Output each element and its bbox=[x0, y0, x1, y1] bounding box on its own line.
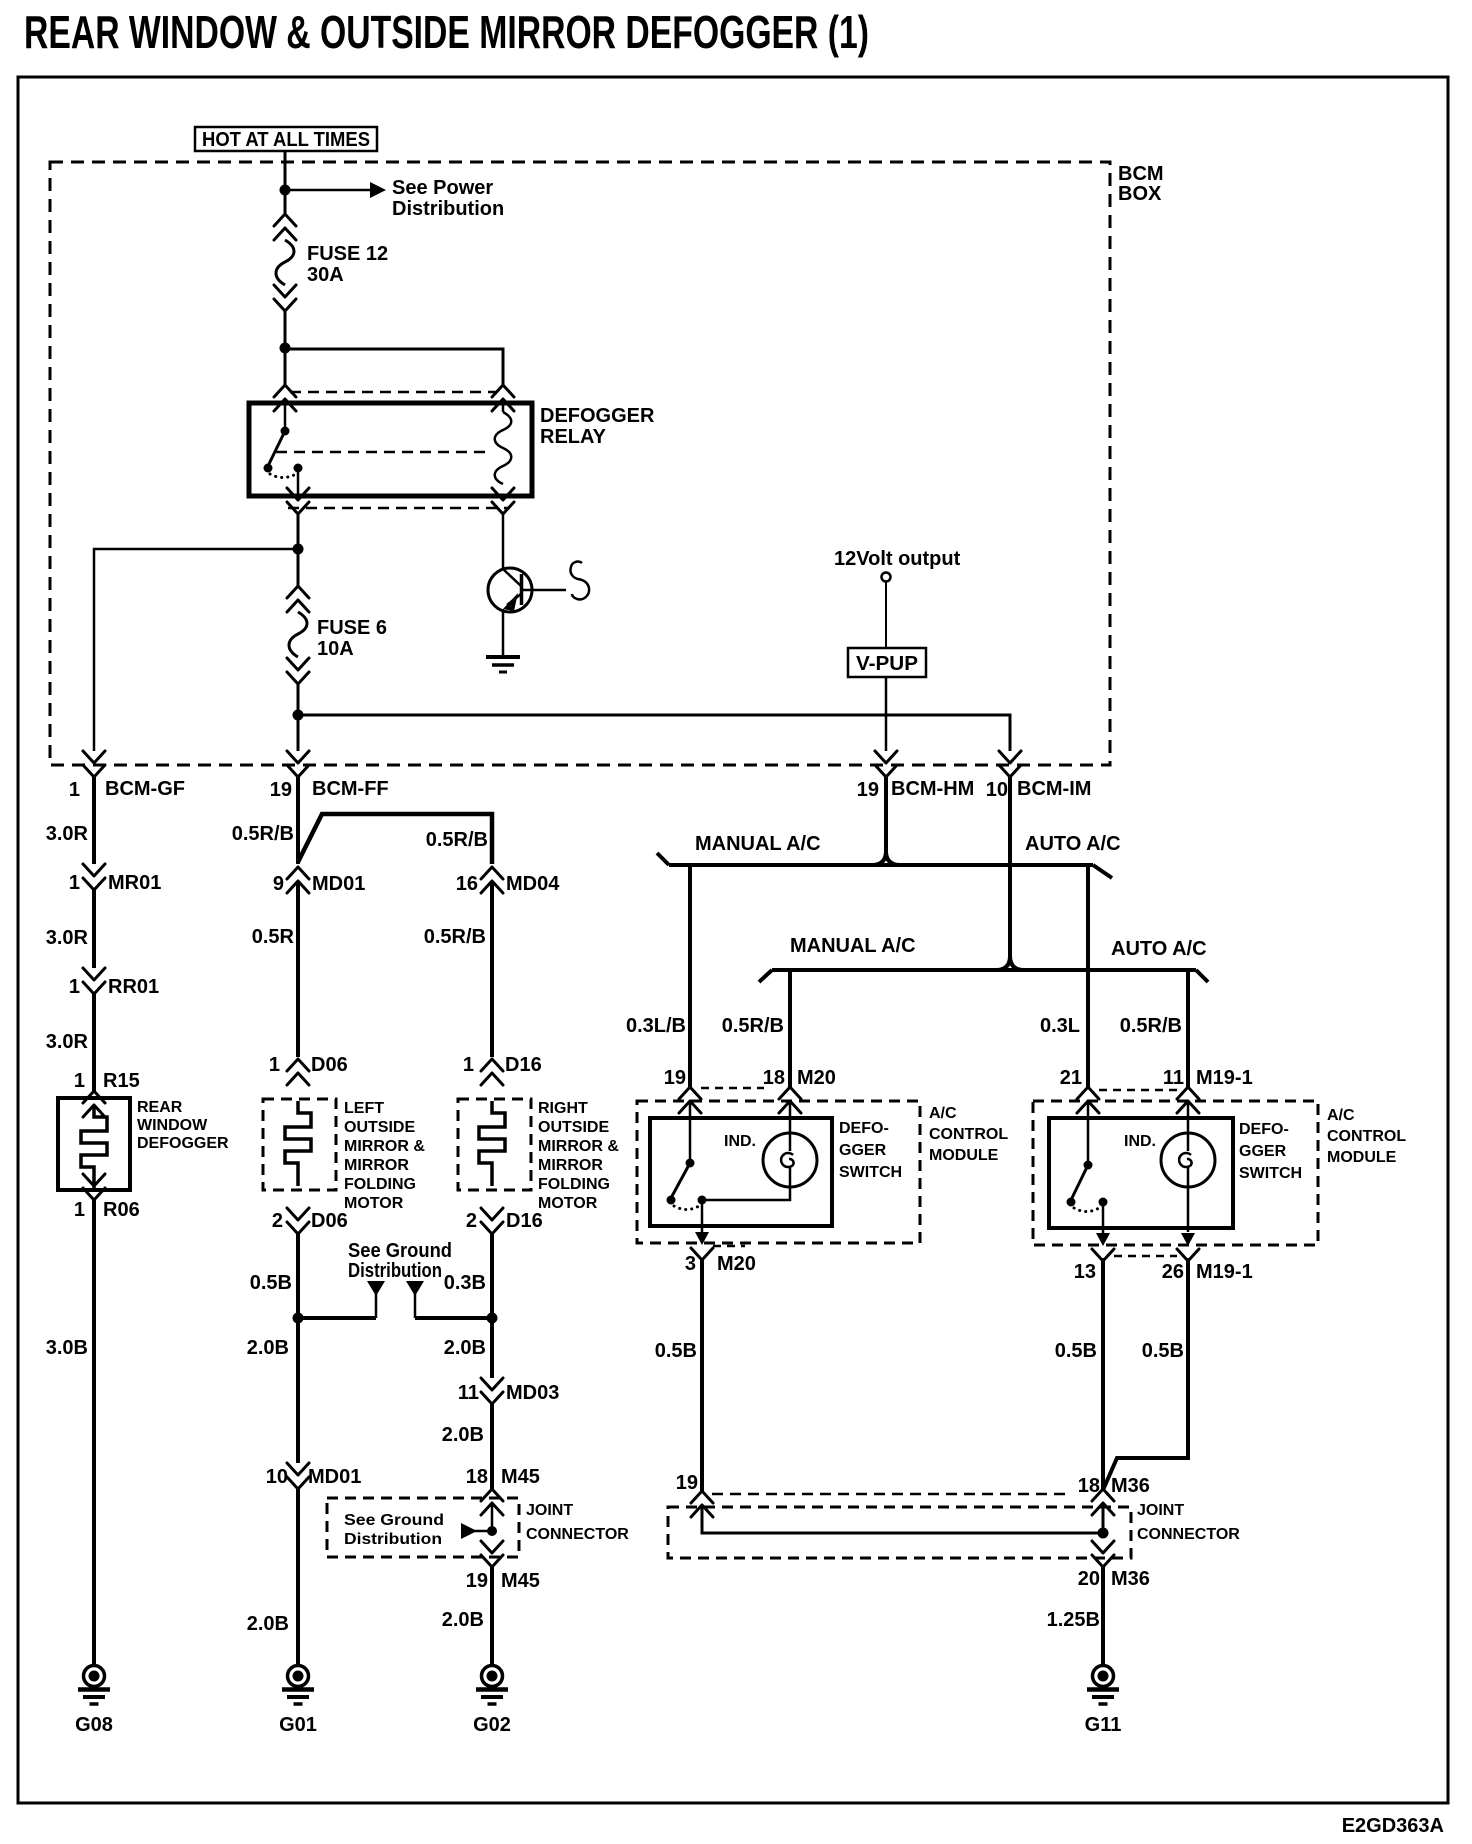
squiggle continuation symbol at base bbox=[570, 562, 589, 600]
switch pole wire right bbox=[1087, 1101, 1090, 1165]
wire relay out to distribution node bbox=[297, 514, 300, 549]
connector BCM-IM pin 10 bbox=[999, 751, 1021, 777]
svg-text:10A: 10A bbox=[317, 638, 354, 660]
svg-text:0.5R/B: 0.5R/B bbox=[426, 829, 488, 851]
switch output dot right bbox=[1099, 1198, 1108, 1207]
svg-text:REAR WINDOW & OUTSIDE MIRROR D: REAR WINDOW & OUTSIDE MIRROR DEFOGGER (1… bbox=[24, 6, 869, 58]
svg-text:MIRROR: MIRROR bbox=[538, 1157, 603, 1174]
svg-text:BOX: BOX bbox=[1118, 183, 1162, 205]
svg-text:3: 3 bbox=[685, 1253, 696, 1275]
svg-text:DEFO-: DEFO- bbox=[1239, 1121, 1289, 1138]
switch contact dot right module bbox=[1067, 1198, 1076, 1207]
connector RR01 pin 1 bbox=[83, 968, 105, 994]
wire fuse 12 to relay feed node bbox=[284, 311, 287, 385]
left mirror motor dashed body bbox=[263, 1099, 336, 1190]
wire from HOT box down bbox=[284, 151, 287, 190]
svg-text:Distribution: Distribution bbox=[348, 1260, 442, 1282]
svg-text:11: 11 bbox=[458, 1382, 479, 1404]
connector M20 pin 3 bbox=[695, 1232, 709, 1245]
ground distribution arrow left bbox=[367, 1281, 385, 1296]
svg-text:D06: D06 bbox=[311, 1054, 348, 1076]
svg-text:1: 1 bbox=[74, 1199, 85, 1221]
connector line M19-1 dashed bottom bbox=[1114, 1255, 1177, 1258]
svg-text:MOTOR: MOTOR bbox=[344, 1195, 404, 1212]
wire 3.0R RR01 to R15 bbox=[92, 994, 96, 1091]
wire 0.5R/B drop to pin 11 bbox=[1186, 970, 1190, 1088]
svg-text:CONNECTOR: CONNECTOR bbox=[1137, 1526, 1240, 1543]
node BCM-FF branch junction bbox=[293, 710, 304, 721]
svg-text:MODULE: MODULE bbox=[1327, 1149, 1397, 1166]
harness bracket manual/auto 2 bbox=[772, 968, 1196, 972]
svg-text:GGER: GGER bbox=[1239, 1143, 1287, 1160]
svg-text:DEFOGGER: DEFOGGER bbox=[137, 1135, 229, 1152]
connector BCM-HM pin 19 bbox=[875, 751, 897, 777]
switch dotted travel arc right bbox=[1074, 1208, 1099, 1212]
svg-text:21: 21 bbox=[1060, 1067, 1082, 1089]
wire 0.5R/B MD04 to D16 bbox=[490, 881, 494, 1057]
joint connector dashed box left bbox=[327, 1498, 519, 1557]
svg-text:RIGHT: RIGHT bbox=[538, 1100, 588, 1117]
svg-text:AUTO A/C: AUTO A/C bbox=[1025, 833, 1121, 855]
svg-text:2: 2 bbox=[466, 1210, 477, 1232]
svg-text:BCM-IM: BCM-IM bbox=[1017, 778, 1091, 800]
svg-text:0.5R/B: 0.5R/B bbox=[1120, 1015, 1182, 1037]
svg-text:1: 1 bbox=[69, 872, 80, 894]
svg-text:0.5R/B: 0.5R/B bbox=[722, 1015, 784, 1037]
relay K1 dashed line top bbox=[290, 391, 497, 394]
svg-text:3.0R: 3.0R bbox=[46, 1031, 89, 1053]
svg-text:16: 16 bbox=[456, 873, 478, 895]
ground at transistor emitter bbox=[486, 655, 520, 659]
lamp lead bottom bbox=[789, 1166, 792, 1187]
svg-text:10: 10 bbox=[986, 779, 1008, 801]
svg-text:RELAY: RELAY bbox=[540, 426, 607, 448]
svg-text:30A: 30A bbox=[307, 264, 344, 286]
wire 0.3B D16 to junction bbox=[490, 1234, 494, 1318]
svg-text:2: 2 bbox=[272, 1210, 283, 1232]
wire feed to relay coil side bbox=[285, 349, 503, 385]
svg-text:1: 1 bbox=[69, 779, 80, 801]
joint connector dashed box right bbox=[668, 1507, 1131, 1558]
relay pin connector top-left bbox=[274, 385, 296, 411]
svg-text:0.5R/B: 0.5R/B bbox=[424, 926, 486, 948]
wire 3.0R BCM-GF to MR01 bbox=[92, 777, 96, 864]
ground G02 bbox=[476, 1666, 508, 1705]
wire relay coil to transistor collector bbox=[502, 514, 505, 569]
harness bracket manual/auto 1 bbox=[669, 863, 1093, 867]
connector R06 pin 1 bbox=[83, 1174, 105, 1200]
svg-text:18: 18 bbox=[466, 1466, 488, 1488]
connector D16 pin 2 bbox=[481, 1208, 503, 1234]
right mirror heating element bbox=[479, 1101, 505, 1186]
svg-text:M36: M36 bbox=[1111, 1568, 1150, 1590]
wire ground distribution tie right bbox=[415, 1316, 492, 1320]
wire V-PUP to BCM-HM bbox=[885, 677, 888, 751]
transistor Q1 body circle bbox=[488, 568, 532, 612]
wire 3.0R MR01 to RR01 bbox=[92, 890, 96, 968]
relay switch contact dot left bbox=[264, 464, 273, 473]
svg-text:DEFO-: DEFO- bbox=[839, 1120, 889, 1137]
switch arm left bbox=[671, 1163, 690, 1198]
fuse F6 connector top bbox=[287, 586, 309, 612]
right mirror motor dashed body bbox=[458, 1099, 531, 1190]
svg-text:19: 19 bbox=[270, 779, 292, 801]
relay K1 dashed line middle bbox=[276, 451, 489, 454]
svg-text:OUTSIDE: OUTSIDE bbox=[538, 1119, 609, 1136]
relay pin connector top-right bbox=[492, 385, 514, 411]
IND lamp circle left bbox=[763, 1133, 817, 1187]
wire junction to fuse 12 bbox=[284, 190, 287, 214]
relay K1 dashed line bottom bbox=[288, 507, 508, 510]
svg-text:18: 18 bbox=[763, 1067, 785, 1089]
svg-text:OUTSIDE: OUTSIDE bbox=[344, 1119, 415, 1136]
svg-text:CONNECTOR: CONNECTOR bbox=[526, 1526, 629, 1543]
svg-text:AUTO A/C: AUTO A/C bbox=[1111, 938, 1207, 960]
wire junction right to BCM-IM bbox=[298, 715, 1010, 751]
defogger switch body right bbox=[1049, 1118, 1233, 1228]
svg-text:BCM: BCM bbox=[1118, 163, 1164, 185]
fuse F6 connector bottom bbox=[287, 658, 309, 684]
wire 0.5R/B drop to pin 18 bbox=[788, 970, 792, 1088]
svg-text:MD04: MD04 bbox=[506, 873, 560, 895]
connector BCM-GF pin 1 bbox=[83, 751, 105, 777]
svg-text:2.0B: 2.0B bbox=[444, 1337, 486, 1359]
HOT AT ALL TIMES box bbox=[195, 127, 377, 151]
connector MD04 pin 16 bbox=[481, 867, 503, 893]
svg-text:See Ground: See Ground bbox=[344, 1512, 444, 1529]
svg-text:FUSE 6: FUSE 6 bbox=[317, 617, 387, 639]
svg-text:D16: D16 bbox=[505, 1054, 542, 1076]
switch pivot dot bbox=[686, 1159, 695, 1168]
svg-text:MD01: MD01 bbox=[308, 1466, 361, 1488]
svg-text:A/C: A/C bbox=[929, 1105, 957, 1122]
wire switch output down right bbox=[1102, 1202, 1105, 1233]
lamp lead top bbox=[789, 1101, 792, 1151]
wire junction left toward BCM-GF bbox=[94, 549, 298, 751]
terminal circle 12Volt output bbox=[882, 573, 891, 582]
svg-text:D16: D16 bbox=[506, 1210, 543, 1232]
svg-text:2.0B: 2.0B bbox=[247, 1337, 289, 1359]
svg-text:13: 13 bbox=[1074, 1261, 1096, 1283]
connector MR01 pin 1 bbox=[83, 864, 105, 890]
svg-text:R15: R15 bbox=[103, 1070, 140, 1092]
svg-text:2.0B: 2.0B bbox=[442, 1424, 484, 1446]
switch pole wire left bbox=[689, 1101, 692, 1163]
BCM BOX dashed boundary bbox=[50, 162, 1110, 765]
svg-text:FUSE 12: FUSE 12 bbox=[307, 243, 388, 265]
wire switch output down bbox=[701, 1200, 704, 1232]
wire 2.0B M45 to G02 bbox=[490, 1567, 494, 1664]
connector M19-1 pin 13 bbox=[1096, 1233, 1110, 1246]
connector line M19-1 dashed bbox=[1099, 1089, 1177, 1092]
node relay output junction bbox=[293, 544, 304, 555]
svg-text:JOINT: JOINT bbox=[526, 1502, 573, 1519]
svg-text:BCM-HM: BCM-HM bbox=[891, 778, 974, 800]
svg-text:M45: M45 bbox=[501, 1570, 540, 1592]
wire 0.3L drop to pin 21 bbox=[1086, 865, 1090, 1088]
node junction below HOT box bbox=[280, 185, 291, 196]
defogger switch body left bbox=[650, 1118, 832, 1226]
wire 0.5R MD01 to D06 bbox=[296, 881, 300, 1057]
switch arm right bbox=[1071, 1165, 1088, 1200]
wire to See Power Distribution arrow bbox=[285, 189, 370, 192]
lamp filament curl right bbox=[1179, 1153, 1191, 1167]
svg-text:19: 19 bbox=[466, 1570, 488, 1592]
connector D06 pin 2 bbox=[287, 1208, 309, 1234]
rear window defogger heating element bbox=[81, 1105, 107, 1190]
svg-text:See Ground: See Ground bbox=[348, 1240, 452, 1262]
switch output dot bbox=[698, 1196, 707, 1205]
wire 3.0B R06 to G08 bbox=[92, 1200, 96, 1664]
svg-text:E2GD363A: E2GD363A bbox=[1342, 1815, 1444, 1837]
joint connector internal wire bbox=[491, 1503, 494, 1531]
svg-text:WINDOW: WINDOW bbox=[137, 1117, 208, 1134]
svg-text:MANUAL A/C: MANUAL A/C bbox=[790, 935, 916, 957]
wire 0.5B D06 to junction bbox=[296, 1234, 300, 1318]
svg-text:FOLDING: FOLDING bbox=[538, 1176, 610, 1193]
wire switch contact to relay bottom pin bbox=[297, 468, 300, 498]
svg-text:MOTOR: MOTOR bbox=[538, 1195, 598, 1212]
wire branch diagonal to MD04 feed bbox=[298, 814, 492, 864]
left mirror heating element bbox=[285, 1101, 311, 1186]
ground G08 bbox=[78, 1666, 110, 1705]
svg-text:See Power: See Power bbox=[392, 177, 493, 199]
wire fuse 6 to BCM-FF node bbox=[297, 684, 300, 751]
wire 0.3L/B drop to pin 19 bbox=[688, 865, 692, 1088]
svg-text:10: 10 bbox=[266, 1466, 288, 1488]
svg-text:3.0R: 3.0R bbox=[46, 927, 89, 949]
IND lamp circle right bbox=[1161, 1133, 1215, 1187]
node joint connector right junction bbox=[1098, 1528, 1109, 1539]
wire 0.5B pin3 M20 down to joint connector bbox=[700, 1258, 704, 1491]
svg-text:12Volt output: 12Volt output bbox=[834, 548, 961, 570]
connector M36 pin 20 bbox=[1092, 1541, 1114, 1567]
svg-text:LEFT: LEFT bbox=[344, 1100, 384, 1117]
rear window defogger body bbox=[58, 1098, 130, 1190]
svg-text:FOLDING: FOLDING bbox=[344, 1176, 416, 1193]
svg-text:M19-1: M19-1 bbox=[1196, 1261, 1253, 1283]
svg-text:G01: G01 bbox=[279, 1714, 317, 1736]
svg-text:3.0B: 3.0B bbox=[46, 1337, 88, 1359]
wire BCM-HM down to manual/auto split bbox=[872, 777, 900, 865]
svg-text:1: 1 bbox=[463, 1054, 474, 1076]
wire 2.0B MD03 to M45 bbox=[490, 1404, 494, 1489]
svg-text:0.5B: 0.5B bbox=[250, 1272, 292, 1294]
wire ground distribution tie left bbox=[298, 1316, 376, 1320]
svg-text:IND.: IND. bbox=[1124, 1133, 1156, 1150]
svg-text:26: 26 bbox=[1162, 1261, 1184, 1283]
svg-text:REAR: REAR bbox=[137, 1099, 183, 1116]
svg-text:MODULE: MODULE bbox=[929, 1147, 999, 1164]
svg-text:0.3L: 0.3L bbox=[1040, 1015, 1080, 1037]
transistor Q1 collector stroke bbox=[504, 570, 521, 586]
wire transistor emitter to ground bbox=[502, 609, 505, 655]
svg-text:D06: D06 bbox=[311, 1210, 348, 1232]
svg-text:RR01: RR01 bbox=[108, 976, 159, 998]
svg-text:0.5B: 0.5B bbox=[1142, 1340, 1184, 1362]
svg-text:0.3B: 0.3B bbox=[444, 1272, 486, 1294]
connector MD01 pin 9 bbox=[287, 867, 309, 893]
svg-text:R06: R06 bbox=[103, 1199, 140, 1221]
svg-text:2.0B: 2.0B bbox=[442, 1609, 484, 1631]
svg-text:Distribution: Distribution bbox=[344, 1531, 442, 1548]
svg-text:G11: G11 bbox=[1085, 1714, 1122, 1736]
transistor Q1 emitter stroke with arrow bbox=[507, 594, 521, 605]
wire 0.5B pin26 down with elbow to M36 bbox=[1103, 1258, 1188, 1490]
svg-text:HOT AT ALL TIMES: HOT AT ALL TIMES bbox=[202, 129, 370, 151]
ground G11 bbox=[1087, 1666, 1119, 1705]
svg-text:GGER: GGER bbox=[839, 1142, 887, 1159]
svg-text:MIRROR: MIRROR bbox=[344, 1157, 409, 1174]
svg-text:A/C: A/C bbox=[1327, 1107, 1355, 1124]
svg-text:20: 20 bbox=[1078, 1568, 1100, 1590]
connector BCM-FF pin 19 bbox=[287, 751, 309, 777]
relay coil winding bbox=[495, 412, 512, 484]
lamp lead bottom right bbox=[1187, 1166, 1190, 1232]
relay switch dotted travel arc bbox=[270, 474, 296, 478]
ground G01 bbox=[282, 1666, 314, 1705]
svg-text:9: 9 bbox=[273, 873, 284, 895]
svg-text:1: 1 bbox=[74, 1070, 85, 1092]
wire 0.5R/B BCM-FF to MD01 bbox=[296, 777, 300, 864]
connector M19-1 pin 26 bbox=[1181, 1233, 1195, 1246]
wire BCM-IM down to manual/auto split 2 bbox=[996, 777, 1024, 970]
svg-text:MR01: MR01 bbox=[108, 872, 161, 894]
relay switch contact dot right bbox=[294, 464, 303, 473]
wire 0.5B pin13 down to M36 bbox=[1101, 1258, 1105, 1489]
relay switch pivot dot bbox=[281, 427, 290, 436]
wire 2.0B to MD03 bbox=[490, 1318, 494, 1378]
A/C control module dashed box right bbox=[1033, 1101, 1318, 1245]
relay coil stub top bbox=[502, 399, 505, 412]
wire switch output to lamp bbox=[702, 1187, 790, 1200]
node joint connector junction bbox=[487, 1526, 497, 1536]
fuse F12 connector top bbox=[274, 214, 296, 240]
svg-text:19: 19 bbox=[664, 1067, 686, 1089]
svg-text:M20: M20 bbox=[717, 1253, 756, 1275]
joint connector arrow from ground distribution bbox=[468, 1530, 488, 1533]
svg-text:SWITCH: SWITCH bbox=[1239, 1165, 1302, 1182]
switch dotted travel arc bbox=[674, 1206, 699, 1210]
transistor Q1 base lead bbox=[523, 589, 566, 592]
svg-text:Distribution: Distribution bbox=[392, 198, 504, 220]
wire 2.0B to MD01 pin10 bbox=[296, 1318, 300, 1463]
relay switch arm bbox=[268, 431, 285, 466]
svg-text:V-PUP: V-PUP bbox=[856, 653, 918, 675]
svg-text:SWITCH: SWITCH bbox=[839, 1164, 902, 1181]
svg-text:19: 19 bbox=[857, 779, 879, 801]
svg-text:3.0R: 3.0R bbox=[46, 823, 89, 845]
relay pin connector bottom-right bbox=[492, 488, 514, 514]
svg-text:2.0B: 2.0B bbox=[247, 1613, 289, 1635]
lamp filament curl bbox=[781, 1153, 793, 1167]
relay switch common stub bbox=[284, 399, 287, 431]
svg-text:G02: G02 bbox=[473, 1714, 511, 1736]
wire 1.25B M36 to G11 bbox=[1101, 1567, 1105, 1664]
connector line M20 dashed bbox=[701, 1087, 764, 1090]
svg-text:BCM-GF: BCM-GF bbox=[105, 778, 185, 800]
svg-text:19: 19 bbox=[676, 1472, 698, 1494]
svg-text:0.5R/B: 0.5R/B bbox=[232, 823, 294, 845]
fuse F12 connector bottom bbox=[274, 285, 296, 311]
svg-text:1.25B: 1.25B bbox=[1047, 1609, 1100, 1631]
wire 2.0B MD01 to G01 bbox=[296, 1489, 300, 1664]
svg-text:MIRROR &: MIRROR & bbox=[538, 1138, 619, 1155]
svg-text:MD01: MD01 bbox=[312, 873, 365, 895]
svg-text:CONTROL: CONTROL bbox=[929, 1126, 1008, 1143]
connector M36 dashed line bbox=[712, 1493, 1068, 1496]
A/C control module dashed box left bbox=[637, 1101, 920, 1243]
svg-text:0.3L/B: 0.3L/B bbox=[626, 1015, 686, 1037]
connector MD01 pin 10 bbox=[287, 1463, 309, 1489]
switch pivot dot right bbox=[1084, 1161, 1093, 1170]
svg-text:1: 1 bbox=[269, 1054, 280, 1076]
svg-text:MIRROR &: MIRROR & bbox=[344, 1138, 425, 1155]
ground distribution arrow right bbox=[406, 1281, 424, 1296]
svg-text:JOINT: JOINT bbox=[1137, 1502, 1184, 1519]
transistor Q1 base bar bbox=[520, 574, 524, 605]
svg-text:IND.: IND. bbox=[724, 1133, 756, 1150]
svg-text:M45: M45 bbox=[501, 1466, 540, 1488]
svg-text:11: 11 bbox=[1163, 1067, 1184, 1089]
svg-text:G08: G08 bbox=[75, 1714, 113, 1736]
svg-text:CONTROL: CONTROL bbox=[1327, 1128, 1406, 1145]
svg-text:DEFOGGER: DEFOGGER bbox=[540, 405, 655, 427]
joint connector internal bus wire bbox=[702, 1503, 1103, 1533]
V-PUP box bbox=[848, 648, 926, 677]
node D06 ground junction bbox=[293, 1313, 304, 1324]
svg-text:M19-1: M19-1 bbox=[1196, 1067, 1253, 1089]
fuse F6 element bbox=[289, 612, 307, 657]
svg-text:0.5B: 0.5B bbox=[1055, 1340, 1097, 1362]
node D16 ground junction bbox=[487, 1313, 498, 1324]
switch contact dot left bbox=[667, 1196, 676, 1205]
wire 12V to V-PUP bbox=[885, 581, 887, 648]
wire junction down to fuse 6 bbox=[297, 549, 300, 586]
lamp lead top right bbox=[1187, 1101, 1190, 1151]
svg-text:0.5B: 0.5B bbox=[655, 1340, 697, 1362]
svg-text:1: 1 bbox=[69, 976, 80, 998]
connector MD03 pin 11 bbox=[481, 1378, 503, 1404]
svg-text:MANUAL A/C: MANUAL A/C bbox=[695, 833, 821, 855]
relay pin connector bottom-left bbox=[287, 488, 309, 514]
fuse F12 element bbox=[276, 240, 294, 285]
svg-text:M36: M36 bbox=[1111, 1475, 1150, 1497]
node relay feed junction bbox=[280, 343, 291, 354]
relay K1 DEFOGGER RELAY body bbox=[249, 403, 532, 496]
connector M45 pin 19 bbox=[481, 1541, 503, 1567]
svg-text:MD03: MD03 bbox=[506, 1382, 559, 1404]
svg-text:BCM-FF: BCM-FF bbox=[312, 778, 389, 800]
svg-text:M20: M20 bbox=[797, 1067, 836, 1089]
svg-text:0.5R: 0.5R bbox=[252, 926, 295, 948]
